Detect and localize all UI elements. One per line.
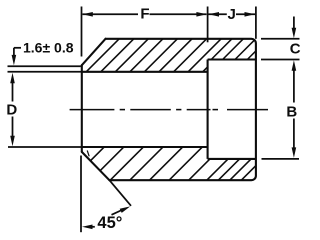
- svg-text:45°: 45°: [97, 214, 122, 232]
- svg-text:C: C: [290, 41, 301, 58]
- svg-text:J: J: [228, 6, 236, 23]
- svg-text:F: F: [140, 6, 149, 23]
- svg-text:1.6± 0.8: 1.6± 0.8: [23, 40, 74, 56]
- svg-text:B: B: [286, 104, 297, 121]
- svg-text:D: D: [6, 101, 17, 118]
